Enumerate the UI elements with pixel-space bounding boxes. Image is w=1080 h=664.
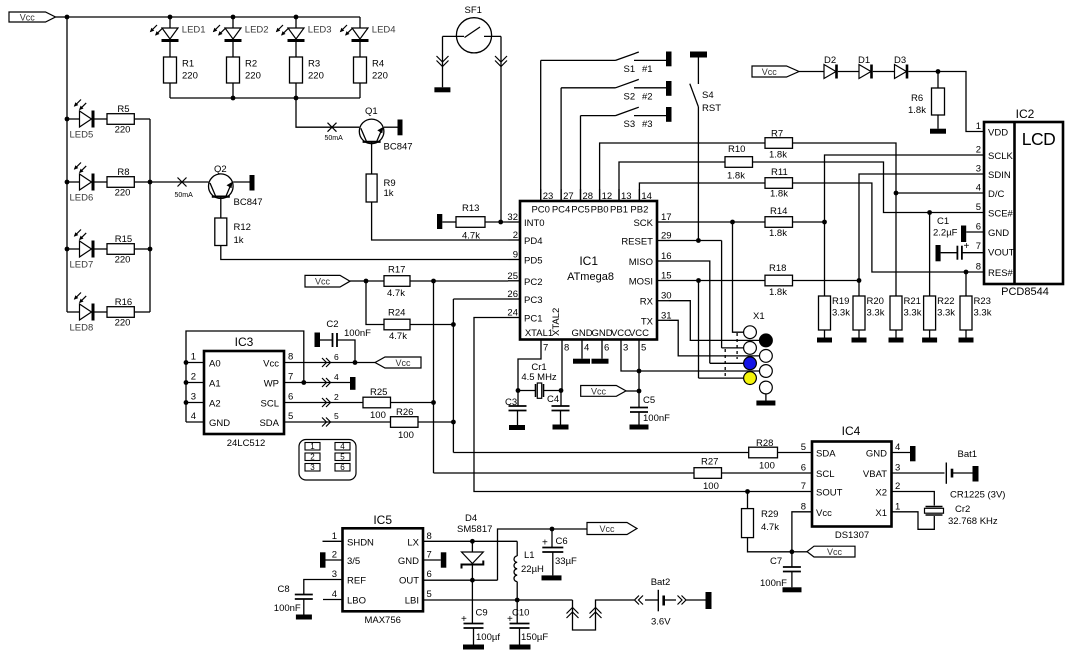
wire to Vcc flag (IC4) bbox=[792, 551, 807, 553]
wire VCC pin5 down bbox=[638, 351, 640, 408]
ground (R20) bbox=[852, 338, 867, 343]
svg-text:LED7: LED7 bbox=[70, 260, 94, 271]
pin 17 SCK stub bbox=[657, 221, 669, 223]
pin name TX bbox=[641, 316, 654, 327]
svg-text:S4: S4 bbox=[702, 90, 714, 101]
resistor R10 bbox=[725, 157, 753, 168]
pin name SCL (IC4) bbox=[816, 469, 834, 480]
wire C3 to ground bbox=[517, 411, 519, 426]
svg-text:3/5: 3/5 bbox=[347, 556, 360, 567]
pin number 5 (IC5) bbox=[427, 589, 432, 600]
pin 26 PC3 stub bbox=[508, 298, 520, 300]
svg-text:1: 1 bbox=[976, 121, 981, 132]
resistor R7 bbox=[765, 138, 793, 149]
junction SCK/X1 bbox=[730, 220, 735, 225]
pin name A1 bbox=[209, 379, 221, 390]
connector pad (IC5 GND) bbox=[441, 552, 447, 567]
svg-text:C1: C1 bbox=[937, 216, 949, 227]
svg-text:PD4: PD4 bbox=[524, 236, 542, 247]
wire C9 to ground bbox=[473, 628, 475, 645]
ground (C6) bbox=[542, 575, 562, 580]
legend pin 3 bbox=[305, 463, 320, 472]
pin number 8 bbox=[288, 352, 293, 363]
pin name PC4 bbox=[552, 205, 570, 216]
wire Bat2 to pad bbox=[686, 599, 706, 601]
crystal Cr1 bbox=[536, 383, 544, 398]
pin 13 PB1 stub bbox=[618, 189, 620, 201]
label R8 value bbox=[115, 188, 131, 199]
svg-text:C5: C5 bbox=[643, 395, 655, 406]
wire VBAT to Bat1 bbox=[892, 472, 945, 474]
pin 3 VCC stub bbox=[620, 340, 622, 352]
connector pad (C1) bbox=[936, 245, 941, 261]
capacitor C4 bbox=[552, 406, 570, 411]
wire S3 right bbox=[634, 115, 666, 117]
power flag Vcc (top left) bbox=[9, 12, 56, 23]
svg-text:PB2: PB2 bbox=[630, 205, 648, 216]
transistor Q2 BC847 bbox=[209, 174, 234, 199]
pin 8 XTAL2 stub bbox=[561, 340, 563, 352]
svg-text:D1: D1 bbox=[858, 55, 870, 66]
label D1 bbox=[858, 55, 870, 66]
svg-text:220: 220 bbox=[115, 255, 131, 266]
label R24 name bbox=[388, 308, 405, 319]
svg-text:VCC: VCC bbox=[629, 328, 649, 339]
svg-text:4: 4 bbox=[334, 372, 339, 382]
svg-text:8: 8 bbox=[564, 343, 569, 354]
wire VCC to X1 pad6 bbox=[639, 370, 760, 372]
pin name SDIN (IC2) bbox=[988, 170, 1011, 181]
svg-text:Cr2: Cr2 bbox=[955, 504, 970, 515]
label R23 name bbox=[974, 296, 991, 307]
pin 31 TX stub bbox=[657, 319, 669, 321]
resistor R17 bbox=[384, 276, 410, 287]
wire R6 to ground bbox=[937, 115, 939, 129]
svg-text:5: 5 bbox=[641, 343, 646, 354]
resistor R8 bbox=[107, 177, 134, 188]
resistor R13 bbox=[456, 217, 485, 228]
resistor R21 bbox=[890, 296, 902, 330]
svg-text:R29: R29 bbox=[761, 509, 778, 520]
svg-text:220: 220 bbox=[115, 318, 131, 329]
label Cr1 value bbox=[521, 372, 557, 383]
wire SF1 left bbox=[443, 35, 465, 37]
svg-text:SCL: SCL bbox=[261, 399, 279, 410]
resistor R26 bbox=[391, 417, 419, 428]
svg-text:22µH: 22µH bbox=[521, 564, 544, 575]
switch S4 lever bbox=[690, 84, 699, 107]
svg-text:5: 5 bbox=[427, 589, 432, 600]
label Bat1 bbox=[958, 449, 978, 460]
junction MOSI/X1 bbox=[696, 278, 701, 283]
legend pin 4 bbox=[335, 442, 350, 451]
wire to Cr1 bbox=[518, 390, 536, 392]
pin 24 PC1 stub bbox=[508, 317, 520, 319]
junction SOUT/R29 bbox=[745, 489, 750, 494]
pin number 17 bbox=[661, 212, 672, 223]
label L1 name bbox=[524, 550, 535, 561]
wire S2 left bbox=[561, 87, 615, 89]
svg-text:R24: R24 bbox=[388, 308, 405, 319]
label C7 value bbox=[760, 578, 787, 589]
label Bat2 bbox=[651, 577, 671, 588]
label LED8 bbox=[70, 323, 94, 334]
wire R4 to bottom rail bbox=[359, 83, 361, 98]
label LED2 bbox=[245, 25, 269, 36]
label BC847 (Q1) bbox=[384, 142, 413, 153]
svg-text:5: 5 bbox=[340, 453, 345, 462]
svg-text:WP: WP bbox=[264, 379, 279, 390]
label LED6 bbox=[70, 193, 94, 204]
wire IC3 SDA bbox=[284, 421, 391, 423]
junction IC4 Vcc/C7 bbox=[790, 549, 795, 554]
resistor R16 bbox=[107, 307, 134, 318]
svg-text:23: 23 bbox=[543, 191, 554, 202]
svg-text:5: 5 bbox=[976, 202, 981, 213]
svg-text:6: 6 bbox=[801, 463, 806, 474]
wire OUT up to Vcc rail bbox=[498, 529, 553, 580]
resistor R27 bbox=[694, 468, 722, 479]
svg-text:R4: R4 bbox=[372, 59, 384, 70]
legend pin 5 bbox=[335, 453, 350, 462]
resistor R5 bbox=[107, 114, 134, 125]
svg-text:R15: R15 bbox=[115, 234, 132, 245]
legend pin 1 bbox=[305, 442, 320, 451]
wire SF1 right down to INT0 node bbox=[500, 36, 502, 222]
svg-text:PC5: PC5 bbox=[571, 205, 589, 216]
power flag Vcc (IC3) bbox=[375, 357, 421, 368]
svg-text:IC1: IC1 bbox=[579, 254, 598, 268]
wire R19 to ground bbox=[824, 330, 826, 338]
pin number 15 bbox=[661, 271, 672, 282]
wire to R17 bbox=[366, 280, 384, 282]
label S2 bbox=[624, 91, 636, 102]
LED LED3 bbox=[288, 28, 305, 42]
wire C5 to ground bbox=[638, 412, 640, 425]
label Cr2 name bbox=[955, 504, 970, 515]
svg-text:PCD8544: PCD8544 bbox=[1001, 286, 1049, 298]
svg-text:1k: 1k bbox=[234, 235, 244, 246]
pin name GND bbox=[571, 328, 592, 339]
wire R26 to SDA net bbox=[418, 421, 453, 423]
label LED5 bbox=[70, 130, 94, 141]
svg-text:4.7k: 4.7k bbox=[761, 522, 779, 533]
wire to C7 bbox=[791, 552, 793, 567]
label C8 value bbox=[274, 603, 301, 614]
pin number 29 bbox=[661, 231, 672, 242]
wire R28 to IC4 SDA bbox=[778, 452, 813, 454]
wire LED4 to R4 bbox=[359, 42, 361, 57]
LED LED2 bbox=[225, 28, 242, 42]
pin number 31 bbox=[661, 310, 672, 321]
pin number 7 (IC2) bbox=[976, 241, 981, 252]
pin name SHDN (IC5) bbox=[347, 537, 374, 548]
wire Vcc flag to D2 bbox=[799, 71, 824, 73]
switch SF1 bbox=[456, 18, 491, 53]
pin name D/C (IC2) bbox=[988, 189, 1005, 200]
pin name SOUT (IC4) bbox=[816, 488, 843, 499]
label Q2 bbox=[214, 164, 227, 175]
svg-text:CR1225 (3V): CR1225 (3V) bbox=[950, 490, 1005, 501]
pin number 4 (IC2) bbox=[976, 183, 981, 194]
svg-text:A2: A2 bbox=[209, 399, 221, 410]
capacitor C5 bbox=[630, 408, 648, 413]
label R29 name bbox=[761, 509, 778, 520]
wire RX to X1 bbox=[669, 301, 760, 341]
junction Cr1 right bbox=[559, 388, 564, 393]
pin name RX bbox=[640, 297, 654, 308]
svg-text:6: 6 bbox=[604, 343, 609, 354]
svg-text:R20: R20 bbox=[867, 296, 884, 307]
junction collector bus R15 bbox=[148, 247, 153, 252]
resistor R22 bbox=[924, 296, 936, 330]
connector pad (R13) bbox=[437, 214, 442, 229]
svg-text:GND: GND bbox=[398, 556, 419, 567]
svg-text:C4: C4 bbox=[547, 394, 559, 405]
wire IC5 GND to pad bbox=[423, 559, 441, 561]
resistor R25 bbox=[363, 397, 391, 408]
LED LED7 bbox=[80, 241, 95, 258]
wire MISO to X1 pad5 bbox=[710, 362, 744, 364]
pin number 32 bbox=[507, 212, 518, 223]
wire SF1 right bbox=[484, 35, 501, 37]
wire XTAL1 to Cr1 bbox=[518, 351, 541, 391]
wire R11 to LCD RES# bbox=[793, 183, 985, 272]
label R5 name bbox=[117, 104, 129, 115]
pin name PC3 bbox=[524, 295, 542, 306]
label C6 name bbox=[556, 536, 568, 547]
pin number 4 (IC5) bbox=[332, 589, 337, 600]
svg-text:3.3k: 3.3k bbox=[867, 308, 885, 319]
label LED7 bbox=[70, 260, 94, 271]
wire D3 to node bbox=[908, 71, 938, 73]
label MAX756 bbox=[364, 615, 400, 626]
pin number 3 bbox=[623, 343, 628, 354]
svg-text:LED2: LED2 bbox=[245, 25, 269, 36]
label R2 value bbox=[245, 71, 261, 82]
wire LED6 to R8 bbox=[95, 181, 108, 183]
label R18 name bbox=[769, 263, 786, 274]
svg-text:R28: R28 bbox=[756, 438, 773, 449]
wire R7 to D/C and R21 bbox=[793, 143, 897, 296]
wire MOSI to R18 bbox=[669, 280, 765, 282]
label L1 value bbox=[521, 564, 544, 575]
label C3 bbox=[505, 397, 517, 408]
svg-text:S2: S2 bbox=[624, 91, 636, 102]
svg-text:S1: S1 bbox=[624, 64, 636, 75]
IC U3 24LC512 body bbox=[204, 351, 284, 434]
wire Q1 base to R9 bbox=[371, 142, 373, 174]
wire LED2 to R2 bbox=[232, 42, 234, 57]
pin number 5 bbox=[641, 343, 646, 354]
wire R2 to bottom rail bbox=[232, 83, 234, 98]
label R15 name bbox=[115, 234, 132, 245]
svg-text:7: 7 bbox=[427, 550, 432, 561]
wire SHDN stub bbox=[323, 540, 343, 542]
svg-text:D/C: D/C bbox=[988, 189, 1005, 200]
svg-text:+: + bbox=[964, 241, 970, 252]
pin name PC0 bbox=[531, 205, 549, 216]
svg-text:3.3k: 3.3k bbox=[904, 308, 922, 319]
pin name PC5 bbox=[571, 205, 589, 216]
wire R1 to bottom rail bbox=[169, 83, 171, 98]
resistor R6 bbox=[932, 88, 945, 115]
svg-text:R21: R21 bbox=[904, 296, 921, 307]
label R13 value bbox=[462, 231, 480, 242]
wire R8 to collector bus bbox=[134, 181, 150, 183]
svg-text:1: 1 bbox=[332, 531, 337, 542]
svg-text:8: 8 bbox=[288, 352, 293, 363]
svg-text:R8: R8 bbox=[117, 167, 129, 178]
label C9 name bbox=[476, 608, 488, 619]
ground (R19) bbox=[817, 338, 832, 343]
wire pad to LCD GND bbox=[966, 231, 984, 233]
wire pad to C2 bbox=[320, 339, 333, 341]
resistor R18 bbox=[765, 275, 793, 286]
svg-text:R1: R1 bbox=[182, 59, 194, 70]
svg-text:1.8k: 1.8k bbox=[769, 150, 787, 161]
capacitor C2 bbox=[333, 333, 338, 347]
svg-text:LED4: LED4 bbox=[372, 25, 396, 36]
pin name LBI (IC5) bbox=[405, 596, 419, 607]
wire pad to 3/5 bbox=[326, 559, 343, 561]
label R10 value bbox=[727, 171, 745, 182]
label D3 bbox=[894, 55, 906, 66]
label R13 name bbox=[462, 203, 479, 214]
wire LBO stub bbox=[323, 599, 343, 601]
svg-text:4.7k: 4.7k bbox=[462, 231, 480, 242]
plug chevron (loop left) bbox=[567, 608, 579, 619]
label D2 bbox=[824, 55, 836, 66]
switch S1 lever bbox=[616, 52, 639, 60]
label wire 6 bbox=[334, 352, 339, 362]
label IC5 bbox=[373, 513, 392, 527]
svg-text:6: 6 bbox=[334, 352, 339, 362]
resistor R9 bbox=[366, 174, 377, 202]
svg-text:3: 3 bbox=[623, 343, 628, 354]
wire SCK to R14 bbox=[669, 221, 765, 223]
wire LBI down to C10 bbox=[516, 600, 518, 624]
svg-text:PC4: PC4 bbox=[552, 205, 570, 216]
junction Vcc/C5 bbox=[637, 389, 642, 394]
inductor L1 bbox=[514, 556, 517, 582]
transistor Q1 BC847 bbox=[359, 119, 384, 144]
svg-text:8: 8 bbox=[801, 501, 806, 512]
svg-text:ATmega8: ATmega8 bbox=[567, 271, 614, 283]
svg-text:D3: D3 bbox=[894, 55, 906, 66]
pin number 6 bbox=[604, 343, 609, 354]
wire D1 to D3 bbox=[873, 71, 895, 73]
svg-text:R17: R17 bbox=[388, 265, 405, 276]
svg-text:1k: 1k bbox=[384, 188, 394, 199]
connector pad (Bat2) bbox=[706, 592, 712, 609]
pin number 2 bbox=[513, 230, 518, 241]
pin name XTAL2 bbox=[551, 308, 562, 336]
pin name INT0 bbox=[524, 218, 545, 229]
svg-text:R23: R23 bbox=[974, 296, 991, 307]
svg-text:R13: R13 bbox=[462, 203, 479, 214]
label R22 value bbox=[937, 308, 955, 319]
pin name VCC bbox=[611, 328, 631, 339]
pin name PD4 bbox=[524, 236, 542, 247]
label C9 value bbox=[476, 632, 500, 643]
svg-text:4: 4 bbox=[191, 411, 196, 422]
svg-text:6: 6 bbox=[427, 569, 432, 580]
plug chevron (SCL) bbox=[322, 398, 331, 407]
LED LED1 bbox=[162, 28, 179, 42]
resistor R19 bbox=[819, 296, 831, 330]
svg-text:7: 7 bbox=[288, 372, 293, 383]
svg-text:2: 2 bbox=[895, 481, 900, 492]
svg-text:13: 13 bbox=[621, 191, 632, 202]
wire node to R6 bbox=[937, 72, 939, 89]
svg-text:32: 32 bbox=[507, 212, 518, 223]
wire R17 to PC2 bbox=[410, 280, 508, 282]
junction D/C bbox=[894, 191, 899, 196]
svg-text:Bat1: Bat1 bbox=[958, 449, 978, 460]
wire Vcc rail to C6 bbox=[551, 529, 553, 548]
pin number 4 (IC4) bbox=[895, 442, 900, 453]
svg-text:R25: R25 bbox=[370, 387, 387, 398]
X1 pad2 (black) bbox=[760, 334, 773, 347]
plug chevron (SF1 left) bbox=[437, 56, 449, 67]
label IC1 bbox=[579, 254, 598, 268]
plug chevron (loop right) bbox=[590, 608, 602, 619]
wire to Vcc flag (boost) bbox=[552, 528, 587, 530]
connector pad (S3) bbox=[666, 107, 672, 122]
wire X2 to Cr2 bbox=[892, 492, 935, 506]
ground (SF1) bbox=[434, 87, 450, 92]
pin name 3/5 (IC5) bbox=[347, 556, 360, 567]
svg-text:R10: R10 bbox=[728, 144, 745, 155]
svg-text:2: 2 bbox=[334, 392, 339, 402]
switch S2 lever bbox=[616, 79, 639, 87]
diode D2 bbox=[824, 65, 838, 79]
wire Q2 base to R12 bbox=[220, 197, 222, 218]
label S3 bbox=[624, 119, 636, 130]
svg-text:VOUT: VOUT bbox=[988, 248, 1015, 259]
LED LED4 bbox=[352, 28, 369, 42]
LED3 light arrows bbox=[276, 25, 288, 36]
svg-text:100nF: 100nF bbox=[274, 603, 301, 614]
junction A0 bbox=[184, 360, 189, 365]
svg-text:IC2: IC2 bbox=[1016, 107, 1035, 121]
svg-text:1.8k: 1.8k bbox=[769, 287, 787, 298]
pin name SCL bbox=[261, 399, 279, 410]
label R4 value bbox=[372, 71, 388, 82]
svg-text:R19: R19 bbox=[832, 296, 849, 307]
svg-text:GND: GND bbox=[591, 328, 612, 339]
junction R18/SDIN bbox=[857, 278, 862, 283]
svg-text:Vcc: Vcc bbox=[599, 524, 615, 534]
wire C7 to ground bbox=[791, 572, 793, 588]
label C9 plus bbox=[461, 614, 467, 625]
svg-text:RST: RST bbox=[702, 103, 721, 114]
IC U5 MAX756 body bbox=[343, 528, 424, 611]
svg-text:3: 3 bbox=[191, 392, 196, 403]
label R1 name bbox=[182, 59, 194, 70]
svg-text:R12: R12 bbox=[234, 222, 251, 233]
label R4 name bbox=[372, 59, 384, 70]
svg-text:PD5: PD5 bbox=[524, 256, 542, 267]
label C1 plus bbox=[964, 241, 970, 252]
wire PC2/SCL vertical bbox=[433, 281, 435, 473]
wire R18 out bbox=[793, 280, 860, 282]
pin name WP bbox=[264, 379, 279, 390]
pin number 4 bbox=[584, 343, 589, 354]
ground (R21) bbox=[889, 338, 904, 343]
pin 1 A0 stub bbox=[186, 362, 204, 364]
